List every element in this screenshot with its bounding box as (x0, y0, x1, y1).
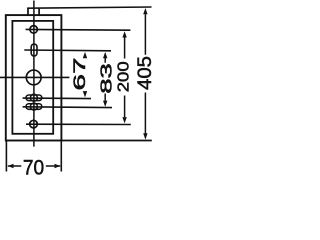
svg-text:83: 83 (97, 63, 115, 94)
svg-text:67: 67 (70, 57, 89, 90)
svg-text:405: 405 (134, 56, 156, 90)
svg-text:70: 70 (23, 157, 44, 180)
svg-text:200: 200 (114, 61, 132, 92)
